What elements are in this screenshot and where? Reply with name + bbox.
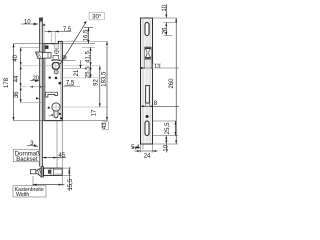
svg-text:20: 20 — [32, 76, 39, 82]
svg-text:7,5: 7,5 — [63, 27, 72, 33]
svg-text:30°: 30° — [92, 15, 102, 21]
svg-text:260: 260 — [169, 78, 175, 89]
svg-text:41,5: 41,5 — [86, 51, 92, 63]
svg-text:16,5: 16,5 — [84, 29, 90, 41]
svg-text:13: 13 — [154, 64, 160, 70]
svg-text:25,5: 25,5 — [86, 66, 92, 78]
svg-text:17: 17 — [91, 109, 97, 116]
svg-text:Width: Width — [16, 192, 29, 198]
svg-text:15,5: 15,5 — [68, 178, 74, 190]
svg-text:5,4: 5,4 — [131, 145, 140, 151]
svg-text:7,5: 7,5 — [66, 80, 75, 86]
svg-text:10: 10 — [162, 4, 168, 11]
svg-text:45: 45 — [58, 153, 65, 159]
svg-text:178: 178 — [4, 77, 10, 88]
svg-text:92: 92 — [94, 79, 100, 86]
svg-text:40: 40 — [13, 54, 19, 61]
svg-text:183,5: 183,5 — [101, 71, 107, 87]
svg-text:36: 36 — [14, 91, 20, 98]
svg-text:Backset: Backset — [16, 157, 38, 163]
svg-text:21: 21 — [74, 69, 80, 76]
svg-text:3: 3 — [30, 141, 34, 147]
svg-text:26: 26 — [163, 27, 169, 34]
svg-text:10: 10 — [164, 144, 170, 151]
svg-text:24: 24 — [144, 154, 151, 160]
svg-text:25,5: 25,5 — [165, 122, 171, 134]
svg-text:10: 10 — [24, 19, 31, 25]
svg-text:44: 44 — [14, 75, 20, 82]
svg-text:43: 43 — [102, 122, 108, 129]
